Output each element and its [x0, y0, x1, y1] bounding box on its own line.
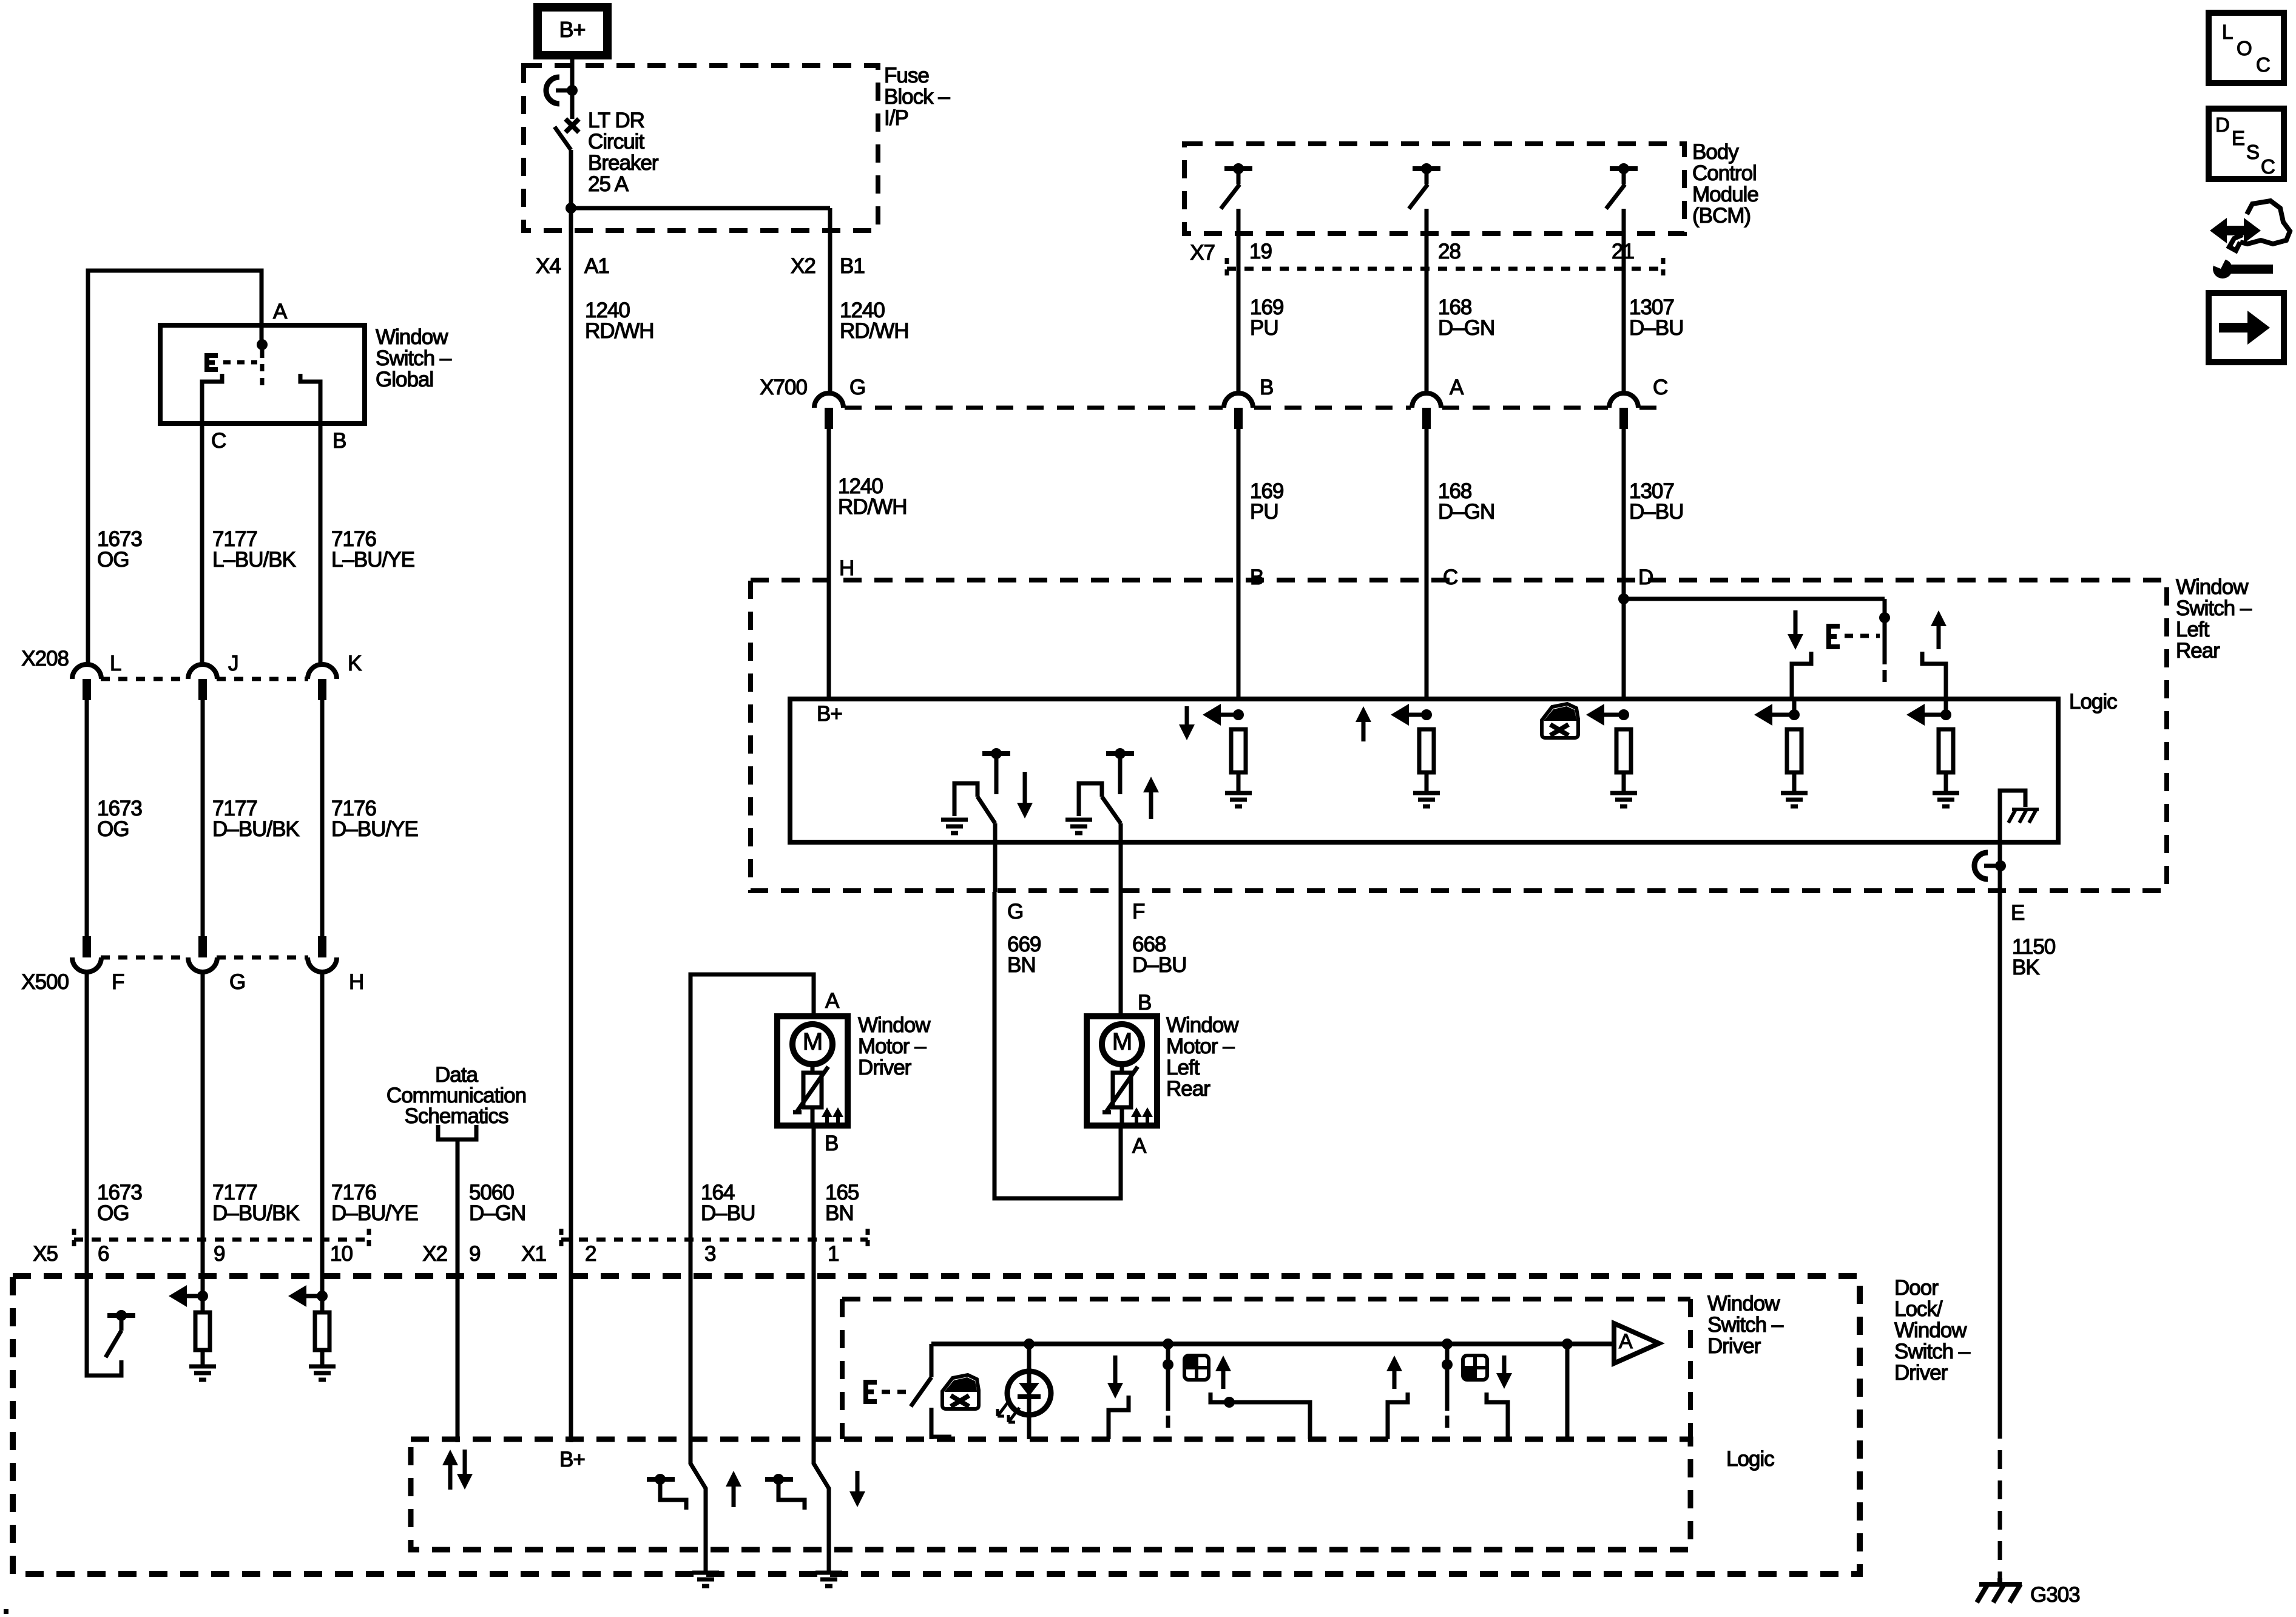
svg-text:25 A: 25 A [588, 172, 629, 196]
svg-text:X2: X2 [791, 254, 815, 278]
svg-text:A: A [1132, 1134, 1147, 1158]
svg-text:(BCM): (BCM) [1692, 204, 1751, 228]
svg-text:RD/WH: RD/WH [840, 319, 909, 343]
svg-text:F: F [112, 970, 124, 994]
svg-text:A: A [1450, 376, 1464, 399]
svg-text:L–BU/BK: L–BU/BK [212, 548, 296, 572]
svg-text:Window: Window [858, 1013, 931, 1037]
svg-text:Left: Left [1166, 1056, 1200, 1079]
svg-text:X700: X700 [760, 376, 807, 399]
svg-text:B+: B+ [559, 17, 585, 42]
svg-text:9: 9 [214, 1242, 225, 1266]
svg-text:28: 28 [1438, 240, 1460, 263]
svg-text:G: G [229, 970, 245, 994]
svg-text:A1: A1 [584, 254, 609, 278]
svg-text:Switch –: Switch – [376, 346, 452, 370]
svg-text:Left: Left [2176, 618, 2210, 641]
svg-text:Switch –: Switch – [2176, 596, 2252, 620]
svg-text:OG: OG [97, 1201, 129, 1225]
svg-text:Window: Window [1894, 1318, 1967, 1342]
svg-text:S: S [2246, 141, 2259, 163]
svg-text:Block –: Block – [884, 85, 950, 109]
svg-text:LT DR: LT DR [588, 109, 644, 132]
svg-text:RD/WH: RD/WH [838, 495, 907, 519]
svg-text:Control: Control [1692, 161, 1757, 185]
svg-text:L–BU/YE: L–BU/YE [331, 548, 414, 572]
svg-text:D: D [1638, 565, 1653, 589]
svg-text:OG: OG [97, 548, 129, 572]
svg-text:6: 6 [98, 1242, 109, 1266]
svg-text:1: 1 [828, 1242, 839, 1266]
svg-text:Lock/: Lock/ [1894, 1297, 1943, 1321]
svg-text:Motor –: Motor – [1166, 1035, 1235, 1058]
svg-text:F: F [1132, 900, 1144, 923]
svg-text:O: O [2237, 37, 2252, 59]
svg-text:X7: X7 [1190, 241, 1215, 265]
svg-text:D–BU: D–BU [1629, 316, 1683, 340]
svg-text:Global: Global [376, 368, 433, 391]
svg-text:B1: B1 [840, 254, 865, 278]
svg-text:X2: X2 [422, 1242, 447, 1266]
svg-text:E: E [2011, 901, 2024, 925]
svg-text:A: A [273, 300, 288, 323]
svg-text:OG: OG [97, 817, 129, 841]
svg-text:M: M [803, 1028, 822, 1055]
svg-text:BK: BK [2012, 956, 2039, 979]
svg-text:Switch –: Switch – [1707, 1313, 1784, 1337]
svg-text:D–GN: D–GN [1438, 500, 1494, 524]
svg-text:Door: Door [1894, 1276, 1939, 1300]
svg-text:G: G [1007, 900, 1023, 923]
svg-text:C: C [1653, 376, 1667, 399]
svg-text:B: B [1138, 991, 1151, 1014]
svg-text:D–BU/YE: D–BU/YE [331, 1201, 418, 1225]
svg-text:C: C [2256, 53, 2270, 76]
svg-text:21: 21 [1612, 240, 1634, 263]
svg-text:B: B [1250, 565, 1263, 589]
svg-text:Window: Window [1166, 1013, 1239, 1037]
svg-text:Driver: Driver [858, 1056, 912, 1079]
svg-text:Motor –: Motor – [858, 1035, 927, 1058]
svg-text:Body: Body [1692, 140, 1739, 164]
svg-text:G: G [849, 376, 865, 399]
svg-text:C: C [211, 429, 226, 453]
svg-text:E: E [2232, 127, 2244, 149]
svg-text:D–BU: D–BU [701, 1201, 755, 1225]
svg-text:C: C [2261, 155, 2275, 178]
svg-text:10: 10 [330, 1242, 353, 1266]
svg-text:9: 9 [469, 1242, 480, 1266]
svg-text:A: A [825, 989, 840, 1013]
svg-text:B: B [333, 429, 346, 453]
svg-text:D–GN: D–GN [469, 1201, 525, 1225]
svg-text:M: M [1112, 1028, 1132, 1055]
svg-text:L: L [110, 652, 121, 675]
svg-text:B+: B+ [559, 1448, 585, 1471]
svg-text:Module: Module [1692, 183, 1758, 206]
svg-text:BN: BN [1007, 953, 1036, 977]
svg-text:Rear: Rear [1166, 1077, 1210, 1101]
svg-text:G303: G303 [2030, 1583, 2080, 1607]
svg-text:A: A [1619, 1330, 1633, 1353]
svg-text:PU: PU [1250, 316, 1278, 340]
svg-text:RD/WH: RD/WH [585, 319, 654, 343]
svg-text:Window: Window [376, 325, 448, 349]
svg-text:L: L [2222, 21, 2233, 43]
svg-text:X5: X5 [33, 1242, 58, 1266]
svg-text:Logic: Logic [1726, 1447, 1774, 1471]
svg-text:X500: X500 [21, 970, 69, 994]
svg-text:D–GN: D–GN [1438, 316, 1494, 340]
svg-text:B: B [825, 1132, 838, 1155]
svg-text:X1: X1 [521, 1242, 546, 1266]
svg-text:H: H [349, 970, 363, 994]
svg-text:Driver: Driver [1707, 1334, 1761, 1358]
svg-text:B: B [1260, 376, 1273, 399]
svg-text:Fuse: Fuse [884, 64, 929, 87]
svg-text:I/P: I/P [884, 106, 908, 130]
svg-text:D: D [2215, 113, 2229, 136]
svg-text:C: C [1443, 565, 1457, 589]
svg-text:BN: BN [825, 1201, 854, 1225]
svg-text:Window: Window [1707, 1292, 1780, 1315]
svg-text:H: H [839, 556, 854, 580]
svg-text:J: J [228, 652, 238, 675]
svg-text:Breaker: Breaker [588, 151, 659, 175]
svg-text:Logic: Logic [2069, 690, 2117, 714]
svg-text:B+: B+ [817, 702, 842, 726]
svg-text:Rear: Rear [2176, 639, 2220, 663]
svg-text:D–BU/YE: D–BU/YE [331, 817, 418, 841]
svg-text:Driver: Driver [1894, 1361, 1948, 1385]
svg-text:D–BU: D–BU [1132, 953, 1186, 977]
svg-text:D–BU: D–BU [1629, 500, 1683, 524]
svg-text:Circuit: Circuit [588, 130, 644, 154]
svg-text:D–BU/BK: D–BU/BK [212, 1201, 299, 1225]
svg-text:D–BU/BK: D–BU/BK [212, 817, 299, 841]
svg-text:K: K [348, 652, 362, 675]
svg-text:19: 19 [1249, 240, 1272, 263]
svg-text:Schematics: Schematics [405, 1104, 508, 1128]
svg-text:2: 2 [585, 1242, 596, 1266]
svg-text:Window: Window [2176, 575, 2249, 599]
svg-text:Switch –: Switch – [1894, 1340, 1971, 1363]
svg-text:3: 3 [704, 1242, 715, 1266]
svg-text:PU: PU [1250, 500, 1278, 524]
svg-text:X4: X4 [536, 254, 561, 278]
svg-text:X208: X208 [21, 647, 69, 670]
